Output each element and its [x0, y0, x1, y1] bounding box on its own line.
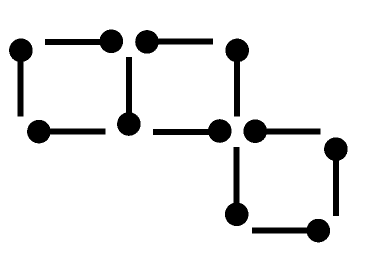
node H [243, 119, 267, 143]
node E [27, 120, 51, 144]
node A [9, 39, 33, 63]
wire G-left horizontal [153, 129, 220, 135]
wire C-right horizontal [147, 39, 213, 45]
node B [100, 30, 124, 54]
wire A-down vertical [18, 56, 24, 117]
node D [225, 39, 249, 63]
node C [135, 30, 159, 54]
wire J-up vertical [234, 147, 240, 214]
node I [324, 137, 348, 161]
wire H-right horizontal [255, 128, 321, 134]
wire E-right horizontal [39, 129, 105, 135]
node G [208, 119, 232, 143]
node J [225, 203, 249, 227]
node K [307, 219, 331, 243]
wire D-down vertical [234, 56, 240, 117]
node F [117, 112, 141, 136]
wire F-up vertical [126, 57, 132, 124]
wire A-B horizontal [45, 39, 111, 45]
wire I-down vertical [333, 155, 339, 216]
wire K-left horizontal [252, 228, 318, 234]
